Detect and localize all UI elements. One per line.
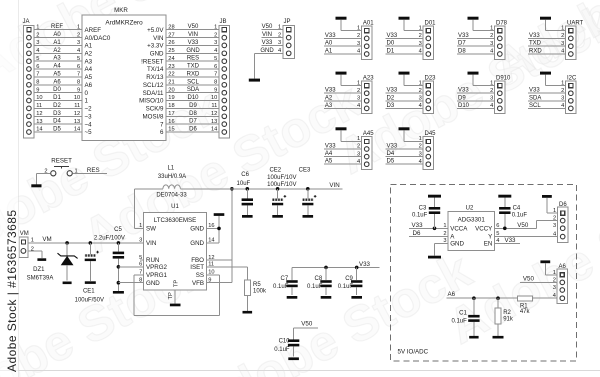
ground tap (C3) [428,195,441,198]
svg-text:A0/DAC0: A0/DAC0 [85,35,111,42]
svg-text:D2: D2 [53,103,61,109]
svg-text:3: 3 [490,41,493,47]
wire D4 (JA pin 13 to MKR pin 13) [34,119,82,125]
svg-text:AREF: AREF [85,27,102,34]
ground (TP) [170,304,181,307]
wire A0 (A01 pin 3) [324,41,362,47]
svg-text:1: 1 [490,25,493,31]
capacitor CE1 100uF/50V [75,241,104,303]
svg-text:6: 6 [214,64,217,70]
svg-text:RXD: RXD [187,71,200,77]
svg-text:JB: JB [220,19,227,25]
svg-text:GND: GND [150,51,164,58]
capacitor CE3 100uF/10V [299,167,317,215]
svg-text:13: 13 [74,119,80,125]
svg-text:15: 15 [168,127,174,133]
resistor R1 47k [517,296,532,315]
svg-text:A3: A3 [85,58,93,65]
ground tap (UART pin 1) [540,17,566,32]
wire D0 (D01 pin 3) [386,41,424,47]
connector D23 [423,75,436,113]
wire D0 (JA pin 9 to MKR pin 9) [34,87,82,93]
svg-text:10uF: 10uF [237,181,251,187]
wire V33 (D910 pin 2) [457,88,495,94]
wire D3 (D23 pin 4) [386,103,424,109]
wire A5 (JA pin 7 to MKR pin 7) [34,71,82,77]
svg-text:3: 3 [357,41,360,47]
svg-text:2: 2 [36,32,39,38]
wire V33 (D45 pin 2) [386,144,424,150]
svg-text:5: 5 [214,56,217,62]
svg-text:2: 2 [357,144,360,150]
svg-text:D9: D9 [189,103,197,109]
resistor R2 91k [495,298,514,336]
svg-text:D1: D1 [387,49,395,55]
svg-text:5: 5 [36,56,39,62]
wire A1 (JA pin 3 to MKR pin 3) [34,40,82,46]
wire D9 (MKR pin 18 to JB pin 11) [166,103,219,109]
ground tap (A6 pin 1) [540,260,557,274]
svg-text:91k: 91k [503,316,514,322]
svg-text:SCL: SCL [529,103,541,109]
wire U1 ISET (pin 11) to R5 [207,267,248,280]
svg-text:V33: V33 [529,33,540,39]
ground tap (D6 pin 1) [542,195,557,213]
connector D910 [495,75,512,113]
wire A2 (JA pin 4 to MKR pin 4) [34,48,82,54]
svg-text:CE1: CE1 [83,289,95,295]
svg-text:A6: A6 [85,82,93,89]
ground tap (D23 pin 1) [399,72,424,87]
svg-text:3: 3 [278,40,281,46]
svg-text:1: 1 [214,24,217,30]
svg-text:VCCY: VCCY [475,226,492,233]
svg-text:~2: ~2 [85,106,93,113]
ground (DZ1) [63,282,72,285]
svg-text:C10: C10 [279,338,291,344]
svg-text:1: 1 [419,80,422,86]
capacitor C8 0.1uF [307,267,332,295]
svg-text:10: 10 [74,95,80,101]
svg-text:0.1uF: 0.1uF [412,212,428,218]
svg-text:GND: GND [146,280,160,287]
svg-text:V33: V33 [458,88,469,94]
svg-text:2: 2 [561,88,564,94]
svg-text:U1: U1 [171,204,179,210]
inductor L1 33uH/0.9A DE0704-33 [156,165,187,198]
svg-text:0.1uF: 0.1uF [338,284,354,290]
svg-text:JP: JP [284,19,291,25]
svg-text:4: 4 [214,48,217,54]
svg-text:V33: V33 [325,144,336,150]
ground (CE3) [303,215,314,218]
svg-text:V33: V33 [325,88,336,94]
wire V50 (U2 VCCY pin 6 to D6 pin 2) [495,221,558,231]
wire D6 (U2 A pin 2) [409,230,448,237]
op-amp: ic MKR ArdMKRZero [82,7,166,140]
svg-text:4: 4 [357,103,360,109]
svg-text:0.1uF: 0.1uF [512,212,528,218]
svg-text:C7: C7 [281,276,289,282]
svg-text:12: 12 [211,111,217,117]
svg-text:0.1uF: 0.1uF [451,318,467,324]
wire V50 (A6 pin 2) [520,275,557,282]
svg-text:25: 25 [168,48,174,54]
svg-text:R2: R2 [503,310,511,316]
svg-text:2: 2 [419,33,422,39]
ground tap (D78 pin 1) [468,17,495,32]
svg-text:RESET: RESET [51,157,72,164]
svg-text:!RESET: !RESET [141,58,164,65]
svg-text:V50: V50 [517,222,529,229]
svg-text:23: 23 [168,64,174,70]
ground tap (I2C pin 1) [540,72,566,87]
svg-text:V33: V33 [188,40,199,46]
svg-text:V33: V33 [387,88,398,94]
svg-text:RES: RES [87,167,100,174]
svg-text:U2: U2 [466,205,474,211]
svg-text:2: 2 [357,88,360,94]
svg-text:D7: D7 [189,119,197,125]
svg-text:7: 7 [77,72,80,78]
connector D01 [423,20,436,59]
wire U1 RUN stub (pin 5) [140,259,144,261]
wire TXD (MKR pin 23 to JB pin 6) [166,64,219,70]
wire U1 GND (pin 8) to C5 [118,282,143,284]
svg-text:SDA: SDA [529,95,541,101]
svg-text:D4: D4 [53,119,61,125]
svg-text:11: 11 [74,103,80,109]
svg-text:D5: D5 [387,159,395,165]
svg-text:3: 3 [214,40,217,46]
svg-text:A2: A2 [53,48,61,54]
wire V33 (A23 pin 2) [324,88,362,94]
svg-text:12: 12 [36,111,42,117]
svg-text:10: 10 [211,95,217,101]
svg-text:A2: A2 [85,51,93,58]
svg-text:26: 26 [168,40,174,46]
wire VIN (JP pin 2) [262,32,284,38]
connector VM [19,231,34,257]
wire V33 (D78 pin 2) [457,33,495,39]
svg-text:Adobe Stock | #1636573685: Adobe Stock | #1636573685 [5,210,19,373]
wire V33 (MKR pin 26 to JB pin 3) [166,40,219,46]
capacitor C7 0.1uF [273,267,298,295]
svg-text:TX/14: TX/14 [147,66,164,73]
svg-text:3: 3 [419,41,422,47]
svg-text:A4: A4 [53,64,61,70]
wire U1 VPRG2 (pin 6) to C5 [118,266,143,268]
svg-text:EN: EN [484,241,493,248]
capacitor C4 0.1uF [499,198,527,229]
wire A4 (JA pin 6 to MKR pin 6) [34,64,82,70]
wire V50 stub (C10) [294,321,318,328]
svg-text:V33: V33 [387,144,398,150]
svg-text:VIN: VIN [262,32,272,38]
svg-text:3: 3 [561,41,564,47]
svg-text:9: 9 [77,87,80,93]
svg-text:4: 4 [561,103,564,109]
svg-text:TP: TP [168,292,174,299]
svg-text:8: 8 [77,80,80,86]
svg-text:V50: V50 [188,24,199,30]
svg-text:V33: V33 [387,33,398,39]
svg-text:V33: V33 [262,40,273,46]
wire D1 (JA pin 10 to MKR pin 10) [34,95,82,101]
ic U2 ADG3301 [443,205,499,250]
ground (VM pin 2) [28,251,46,261]
svg-text:21: 21 [168,80,174,86]
wire A6 (JA pin 8 to MKR pin 8) [34,79,82,85]
wire U2 GND (pin 3) [435,243,449,255]
connector I2C [566,75,578,113]
svg-text:GND: GND [190,226,204,233]
svg-text:3: 3 [139,238,142,244]
svg-text:+5.0V: +5.0V [147,27,164,34]
wire REF (JA pin 1 to MKR pin 1) [34,24,82,30]
svg-text:1: 1 [561,80,564,86]
svg-text:C1: C1 [459,311,467,317]
connector D45 [423,131,436,169]
svg-text:SS: SS [196,272,204,279]
svg-text:3: 3 [419,151,422,157]
svg-text:1: 1 [419,25,422,31]
svg-text:VIN: VIN [188,32,198,38]
capacitor C1 0.1uF [451,298,479,336]
svg-text:2: 2 [214,32,217,38]
svg-text:LTC3630EMSE: LTC3630EMSE [154,217,197,224]
wire D8 (MKR pin 17 to JB pin 12) [166,111,219,117]
svg-text:4: 4 [419,103,422,109]
svg-text:1: 1 [278,24,281,30]
svg-text:SCL: SCL [187,79,199,85]
svg-text:A3: A3 [325,103,333,109]
svg-text:L1: L1 [167,165,174,171]
svg-text:A0: A0 [53,32,61,38]
wire U1 FBO (pin 12) [207,259,232,261]
svg-text:4: 4 [561,49,564,55]
wire SDA (I2C pin 3) [528,95,566,101]
wire D6 (MKR pin 15 to JB pin 14) [166,127,219,133]
svg-text:V50: V50 [262,24,273,30]
svg-text:VPRG1: VPRG1 [146,272,168,279]
svg-text:C5: C5 [114,227,122,233]
dashed region 5V IO/ADC [390,185,576,361]
capacitor CE2 100uF/10V [267,167,296,215]
wire D10 (MKR pin 19 to JB pin 10) [166,95,219,101]
wire RES (RESET pin 1) [72,167,107,174]
svg-text:A1: A1 [85,43,93,50]
svg-text:RXD: RXD [529,49,542,55]
svg-text:11: 11 [211,103,217,109]
svg-text:3: 3 [36,40,39,46]
wire SDA (MKR pin 20 to JB pin 9) [166,87,219,93]
svg-text:C8: C8 [315,276,323,282]
capacitor C3 0.1uF [412,198,440,229]
wire V33 (D01 pin 2) [386,33,424,39]
svg-text:~4: ~4 [85,121,93,128]
wire D1 (D01 pin 4) [386,49,424,55]
svg-text:12: 12 [74,111,80,117]
svg-text:C3: C3 [419,206,427,212]
svg-text:SCK/9: SCK/9 [146,106,164,113]
wire SCL (MKR pin 21 to JB pin 8) [166,79,219,85]
svg-text:MISO/10: MISO/10 [139,98,164,105]
svg-text:0: 0 [85,90,89,97]
svg-text:D8: D8 [458,49,466,55]
svg-text:2: 2 [419,88,422,94]
svg-text:2: 2 [357,33,360,39]
svg-text:V33: V33 [458,33,469,39]
wire A2 (A23 pin 3) [324,95,362,101]
svg-text:8: 8 [36,80,39,86]
svg-text:2.2uF/100V: 2.2uF/100V [94,235,125,241]
connector A6 [553,264,568,304]
svg-text:GND: GND [450,241,464,248]
svg-text:20: 20 [168,87,174,93]
svg-text:0.1uF: 0.1uF [274,347,290,353]
zener diode DZ1 SM6T39A [27,241,78,281]
wire D8 (D78 pin 4) [457,49,495,55]
svg-text:A0: A0 [325,41,333,47]
wire A6 (to A6 pin 4 via R1) [446,291,557,300]
svg-text:8: 8 [214,80,217,86]
svg-text:2: 2 [561,33,564,39]
wire V50 (JP pin 1) [262,24,284,30]
svg-text:V33: V33 [504,237,516,244]
wire V33 (A45 pin 2) [324,144,362,150]
wire U1 VPRG1 (pin 7) / SS (pin 10) loop under chip [134,275,220,316]
svg-text:A4: A4 [85,66,93,73]
svg-text:3: 3 [357,96,360,102]
svg-text:VCCA: VCCA [450,226,468,233]
svg-text:100k: 100k [253,289,267,295]
wire A0 (JA pin 2 to MKR pin 2) [34,32,82,38]
svg-text:2: 2 [419,144,422,150]
svg-text:MKR: MKR [114,7,128,14]
wire V33 rail (C7/C8/C9) [292,261,379,269]
svg-text:D3: D3 [387,103,395,109]
svg-text:Y: Y [488,234,492,241]
svg-text:7: 7 [160,121,164,128]
connector D6 [553,202,568,242]
svg-text:ISET: ISET [190,264,204,271]
ground tap (D45 pin 1) [399,127,424,142]
capacitor C9 0.1uF [338,267,363,295]
svg-text:14: 14 [74,127,80,133]
svg-text:2: 2 [490,33,493,39]
svg-text:GND: GND [260,48,274,54]
wire A4 (A45 pin 3) [324,151,362,157]
svg-text:D10: D10 [187,95,199,101]
wire RES (MKR pin 24 to JB pin 5) [166,56,219,62]
svg-text:10: 10 [36,95,42,101]
svg-text:5V IO/ADC: 5V IO/ADC [398,348,429,355]
ground (JP pin 4) [249,53,260,81]
connector UART [566,20,584,59]
wire RXD (MKR pin 22 to JB pin 7) [166,71,219,77]
svg-text:D9: D9 [458,95,466,101]
svg-text:GND: GND [190,240,204,247]
svg-text:VIN: VIN [153,35,163,42]
svg-text:ADG3301: ADG3301 [458,216,486,223]
svg-text:A1: A1 [325,49,333,55]
svg-text:100uF/10V: 100uF/10V [267,182,296,188]
test point TP (U1) [168,290,175,304]
svg-text:13: 13 [36,119,42,125]
ground (C10) [288,357,299,360]
ground tap (A23 pin 1) [336,72,362,87]
svg-text:1: 1 [490,80,493,86]
svg-text:4: 4 [553,232,556,238]
svg-text:SCL/12: SCL/12 [143,82,164,89]
svg-text:22: 22 [168,72,174,78]
svg-text:14: 14 [36,127,42,133]
svg-text:1: 1 [85,98,89,105]
svg-text:VPRG2: VPRG2 [146,264,168,271]
svg-text:0.1uF: 0.1uF [307,284,323,290]
svg-text:9: 9 [36,87,39,93]
svg-text:D10: D10 [458,103,470,109]
svg-text:SDA: SDA [187,87,199,93]
svg-text:CE2: CE2 [269,167,281,173]
svg-text:33uH/0.9A: 33uH/0.9A [158,174,186,180]
ground (CE1) [85,281,96,284]
connector JP [283,19,295,58]
svg-text:1: 1 [357,80,360,86]
svg-text:TP: TP [174,280,180,287]
connector D78 [495,20,508,59]
svg-text:D4: D4 [387,151,395,157]
svg-text:100uF/50V: 100uF/50V [75,297,104,303]
svg-text:7: 7 [214,72,217,78]
svg-text:D1: D1 [53,95,61,101]
ground (R5) [243,311,253,314]
svg-text:VFB: VFB [192,280,204,287]
svg-text:D3: D3 [53,111,61,117]
svg-text:C9: C9 [345,276,353,282]
ground (C6) [242,215,253,218]
svg-text:V33: V33 [529,88,540,94]
svg-text:SM6T39A: SM6T39A [27,275,54,281]
svg-text:DE0704-33: DE0704-33 [156,192,187,198]
svg-text:R5: R5 [253,282,261,288]
wire U1 VFB (pin 9) to output rail [207,187,234,283]
connector A23 [361,75,374,113]
wire V33 (JP pin 3) [262,40,284,46]
svg-text:A6: A6 [53,79,61,85]
ic U1 LTC3630EMSE [139,204,214,290]
svg-text:SDA/11: SDA/11 [143,90,164,97]
svg-text:4: 4 [278,48,281,54]
svg-text:18: 18 [168,103,174,109]
wire D9 (D910 pin 3) [457,95,495,101]
capacitor C5 2.2uF/100V [94,227,125,291]
svg-text:V33: V33 [359,261,371,268]
wire D10 (D910 pin 4) [457,103,495,109]
connector A45 [361,131,374,169]
ground tap (C4) [498,195,511,198]
capacitor C10 0.1uF [274,328,299,357]
svg-text:4: 4 [357,159,360,165]
svg-text:3: 3 [357,151,360,157]
svg-text:D0: D0 [53,87,61,93]
svg-text:TXD: TXD [529,41,542,47]
ground tap (D01 pin 1) [399,17,424,32]
svg-text:ArdMKRZero: ArdMKRZero [105,20,143,27]
svg-text:1: 1 [419,136,422,142]
svg-text:VIN: VIN [329,182,339,189]
